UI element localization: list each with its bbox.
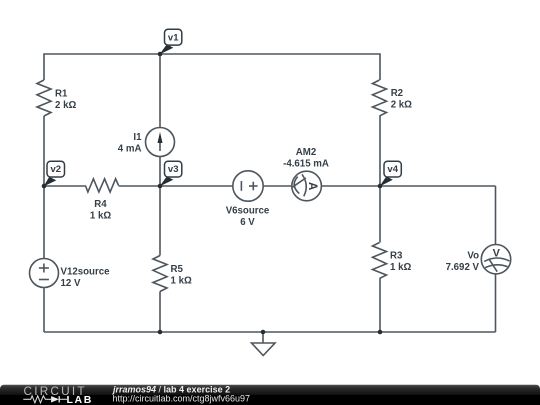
svg-text:2 kΩ: 2 kΩ	[55, 100, 76, 111]
junction node v2 dot	[42, 184, 47, 189]
svg-text:I1: I1	[133, 132, 142, 143]
voltage source V6source	[226, 171, 270, 228]
wire left rail lower	[43, 288, 45, 333]
resistor R4	[85, 179, 118, 222]
resistor R5	[153, 256, 192, 292]
wire middle horizontal v2 to R4	[44, 185, 85, 187]
CircuitLab logo diode	[51, 396, 59, 402]
wire middle horizontal R4 to V6	[119, 185, 233, 187]
svg-text:7.692 V: 7.692 V	[446, 262, 480, 273]
wire middle horizontal AM2 to right corner	[321, 185, 495, 187]
junction dot ground	[261, 330, 266, 335]
voltage source V12source	[30, 259, 111, 289]
svg-text:2 kΩ: 2 kΩ	[391, 100, 412, 111]
svg-text:v3: v3	[168, 164, 179, 175]
svg-text:V12source: V12source	[61, 266, 111, 277]
resistor R3	[373, 243, 412, 279]
current source I1	[118, 128, 175, 157]
svg-text:-4.615 mA: -4.615 mA	[283, 158, 329, 169]
wire bottom rail	[44, 331, 496, 333]
node label v1	[160, 29, 182, 54]
svg-text:A: A	[306, 182, 318, 190]
svg-text:R3: R3	[390, 251, 403, 262]
CircuitLab logo squiggle wire	[23, 396, 51, 403]
svg-text:LAB: LAB	[67, 394, 93, 405]
svg-text:4 mA: 4 mA	[118, 144, 142, 155]
svg-text:AM2: AM2	[296, 147, 316, 158]
junction node v4 dot	[378, 184, 383, 189]
node label v2	[44, 161, 65, 186]
svg-text:R2: R2	[391, 88, 403, 99]
svg-text:Vo: Vo	[467, 251, 479, 262]
wire middle vertical mid	[159, 157, 161, 256]
junction dot bottom right	[378, 330, 383, 335]
wire middle vertical lower	[159, 292, 161, 333]
junction dot bottom middle	[158, 330, 163, 335]
svg-text:v1: v1	[168, 33, 179, 44]
node label v4	[380, 161, 402, 186]
wire left rail mid	[43, 116, 45, 259]
svg-text:R4: R4	[94, 199, 107, 210]
svg-text:6 V: 6 V	[240, 217, 255, 228]
junction node v3 dot	[158, 184, 163, 189]
wire middle horizontal V6 to AM2	[263, 185, 292, 187]
ground	[252, 332, 276, 356]
resistor R1	[37, 80, 76, 116]
wire voltmeter branch upper	[495, 186, 497, 245]
svg-text:1 kΩ: 1 kΩ	[390, 262, 411, 273]
junction node v1 dot	[158, 52, 163, 57]
svg-text:v2: v2	[51, 164, 62, 175]
svg-text:v4: v4	[387, 164, 398, 175]
resistor R2	[373, 80, 413, 116]
ammeter AM2	[283, 147, 329, 201]
wire top rail with corners	[44, 54, 380, 80]
svg-text:V6source: V6source	[226, 206, 270, 217]
wire middle vertical upper	[159, 54, 161, 128]
node label v3	[160, 161, 182, 186]
svg-text:1 kΩ: 1 kΩ	[171, 276, 192, 287]
svg-text:12 V: 12 V	[61, 278, 81, 289]
svg-text:http://circuitlab.com/ctg8jwfv: http://circuitlab.com/ctg8jwfv66u97	[113, 394, 251, 404]
wire right rail mid	[379, 116, 381, 243]
wire right rail lower	[379, 279, 381, 333]
svg-text:1 kΩ: 1 kΩ	[90, 211, 111, 222]
svg-text:R1: R1	[55, 88, 68, 99]
voltmeter Vo	[446, 245, 511, 274]
svg-text:R5: R5	[171, 264, 184, 275]
wire voltmeter branch lower	[495, 274, 497, 332]
